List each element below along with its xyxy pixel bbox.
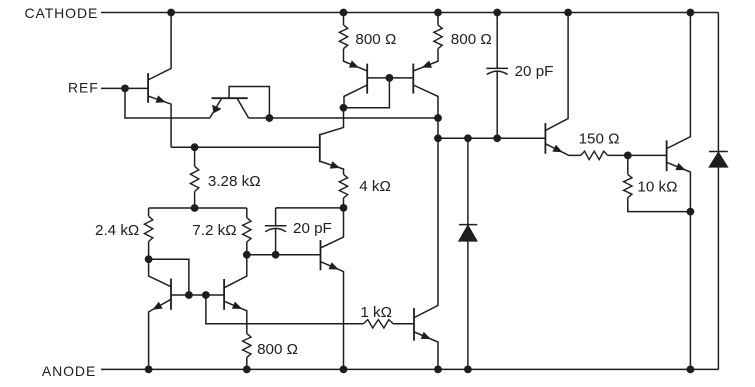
capacitor 20 pF (right): [486, 68, 508, 74]
wire Q4 collector riser to node A: [321, 108, 344, 135]
wire Q9 collector diagonal: [149, 259, 171, 287]
node 20pF left bottom: [272, 251, 280, 259]
node REF junction: [121, 85, 129, 93]
wire Q4 base rail from Q1 emitter: [171, 146, 320, 148]
transistor Q6 base bar: [412, 64, 414, 94]
wire Q9 base-collector tie: [149, 259, 189, 295]
resistor 800 Ω (right): [434, 25, 442, 49]
node Q8 base / 10k junction: [624, 152, 632, 160]
node 800ohm right at cathode rail: [434, 9, 442, 17]
wire cathode rail: [101, 12, 718, 14]
svg-text:10 kΩ: 10 kΩ: [637, 178, 677, 195]
svg-text:2.4 kΩ: 2.4 kΩ: [95, 222, 139, 239]
wire Q12 collector riser: [414, 138, 438, 317]
node 2.4k bottom / Q9 collector: [145, 255, 153, 263]
wire Q7 collector to cathode: [546, 13, 568, 131]
wire Q4 emitter to 4k: [321, 162, 344, 175]
wire Q7 emitter to 150ohm: [546, 144, 581, 156]
wire Q1 emitter drop: [149, 96, 171, 147]
transistor Q4 base bar: [319, 134, 321, 163]
transistor Q10 base bar: [223, 279, 225, 310]
wire 20pF left top rail: [276, 207, 344, 209]
wire Q1 collector to cathode: [149, 13, 171, 80]
node Q8 emitter at anode rail: [687, 366, 695, 374]
node Q9 emitter at anode rail: [145, 366, 153, 374]
arrow Q11 emitter (NPN): [329, 262, 339, 269]
svg-text:800 Ω: 800 Ω: [257, 341, 298, 358]
wire 3.28k top lead: [194, 147, 196, 166]
node base rail left junction: [185, 291, 193, 299]
node Q8 collector at cathode rail: [687, 9, 695, 17]
node B mirror output: [434, 114, 442, 122]
transistor Q7 base bar: [544, 123, 546, 154]
node Q11 emitter at anode rail: [340, 366, 348, 374]
node Q7 collector at cathode rail: [564, 9, 572, 17]
wire Q7 base rail: [438, 137, 545, 139]
arrow Q7 emitter (NPN): [552, 145, 562, 153]
svg-text:4 kΩ: 4 kΩ: [359, 178, 391, 195]
svg-text:20 pF: 20 pF: [515, 63, 554, 80]
resistor 7.2 kΩ: [243, 218, 251, 242]
wire 150ohm to Q8 base: [608, 154, 667, 156]
svg-text:150 Ω: 150 Ω: [579, 131, 620, 148]
transistor Q2 base bar (horizontal): [212, 97, 248, 99]
wire 7.2k top lead: [246, 208, 248, 218]
svg-text:7.2 kΩ: 7.2 kΩ: [192, 222, 236, 239]
node divider junction: [191, 204, 199, 212]
node 10k bottom / Q8 emitter: [687, 208, 695, 216]
node 800ohm left at cathode rail: [340, 9, 348, 17]
node Q4 base / 3.28k junction: [191, 143, 199, 151]
arrow Q4 emitter (NPN): [330, 161, 340, 168]
wire Q11 base rail: [247, 254, 321, 256]
wire Q5-Q6 base rail: [367, 77, 413, 79]
wire 20pF right bottom lead: [496, 71, 498, 138]
svg-text:800 Ω: 800 Ω: [355, 31, 396, 48]
resistor 3.28 kΩ: [190, 166, 198, 191]
node 20pF right at cathode rail: [493, 9, 501, 17]
wire Q11 emitter drop to anode: [321, 262, 344, 370]
wire 800ohm right top lead: [437, 13, 439, 25]
wire Q11 collector riser: [321, 208, 344, 248]
arrow Q5 emitter (PNP): [349, 60, 359, 67]
node 7.2k bottom / Q10 collector: [243, 251, 251, 259]
wire 10k bottom to Q8 emitter: [628, 198, 691, 212]
wire 10k top lead: [627, 155, 629, 174]
wire Q9-Q10 base rail: [171, 294, 224, 296]
wire Q6 collector to node B: [413, 85, 438, 118]
wire REF lead: [101, 87, 148, 89]
wire node B drop: [437, 118, 439, 138]
wire Q6 emitter from 800ohm: [413, 49, 438, 71]
diode D1 (middle): [459, 138, 478, 369]
arrow Q9 emitter (NPN): [152, 302, 162, 310]
arrow Q1 emitter (NPN): [156, 95, 166, 102]
wire 3.28k bottom lead: [194, 192, 196, 209]
wire anode rail: [101, 368, 718, 370]
node base rail right junction: [202, 291, 210, 299]
svg-text:3.28 kΩ: 3.28 kΩ: [208, 173, 261, 190]
resistor 4 kΩ: [339, 174, 347, 198]
arrow Q10 emitter (NPN): [232, 302, 242, 309]
svg-text:ANODE: ANODE: [42, 363, 96, 379]
wire Q10 collector diagonal: [224, 255, 247, 288]
node diode middle at anode rail: [464, 366, 472, 374]
wire 800ohm left top lead: [343, 13, 345, 25]
resistor 800 Ω (left): [339, 25, 347, 49]
transistor Q5 base bar: [366, 64, 368, 94]
wire Q12 emitter to anode: [414, 332, 438, 369]
resistor 150 Ω: [581, 151, 608, 159]
wire 1k to Q12 base: [393, 323, 414, 325]
wire base tie down to node A: [344, 78, 390, 108]
node Q2 collector/base junction: [266, 114, 274, 122]
arrow Q12 emitter (NPN): [421, 332, 431, 339]
node 4k bottom / Q11 collector / 20pF: [340, 204, 348, 212]
transistor Q1 base bar: [147, 73, 149, 103]
wire Q9 emitter drop to anode: [149, 299, 171, 369]
svg-text:REF: REF: [68, 79, 99, 95]
node Q12 collector / node B rail: [434, 134, 442, 142]
arrow Q8 emitter (NPN): [675, 163, 685, 170]
wire 7.2k bottom lead: [246, 242, 248, 255]
wire 20pF left bottom lead: [275, 228, 277, 254]
svg-text:1 kΩ: 1 kΩ: [360, 304, 392, 321]
wire divider node rail: [149, 207, 247, 209]
svg-text:CATHODE: CATHODE: [25, 5, 99, 21]
wire Q2 base tie to collector: [229, 87, 269, 119]
wire 4k bottom lead: [343, 198, 345, 208]
wire Q5 collector to node A: [344, 85, 367, 108]
wire Q8 collector to cathode: [667, 13, 691, 149]
transistor Q8 base bar: [666, 140, 668, 171]
resistor 10 kΩ: [624, 174, 632, 197]
wire 2.4k bottom lead: [148, 242, 150, 260]
transistor Q11 base bar: [320, 240, 322, 270]
wire 2.4k top lead: [148, 208, 150, 216]
arrow Q2 emitter (PNP, points to base): [212, 105, 222, 113]
wire base node to 1k: [206, 295, 364, 324]
wire Q2 collector diagonal: [237, 98, 249, 118]
wire 800ohm bottom lead: [246, 357, 248, 369]
resistor 2.4 kΩ: [144, 216, 152, 241]
node diode branch junction: [464, 134, 472, 142]
transistor Q9 base bar: [170, 279, 172, 310]
svg-text:800 Ω: 800 Ω: [451, 31, 492, 48]
node A mirror input (Q5 collector / Q4 collector / base tie): [340, 104, 348, 112]
wire Q5 emitter from 800ohm: [344, 49, 368, 71]
node Q1 collector at cathode rail: [167, 9, 175, 17]
wire 20pF left top lead: [275, 208, 277, 226]
wire Q8 emitter to anode: [667, 162, 691, 369]
wire Q2 emitter diagonal: [210, 98, 222, 118]
wire mirror output rail: [249, 117, 438, 119]
resistor 1 kΩ: [363, 320, 393, 328]
node 800ohm bottom at anode rail: [243, 366, 251, 374]
node Q12 emitter at anode rail: [434, 366, 442, 374]
node 20pF right bottom junction: [493, 134, 501, 142]
arrow Q6 emitter (PNP): [422, 61, 432, 68]
node base rail junction: [386, 74, 394, 82]
wire 20pF right top lead: [496, 13, 498, 69]
svg-text:20 pF: 20 pF: [293, 220, 332, 237]
wire REF to Q2 emitter: [125, 88, 210, 118]
diode D2 (right edge): [709, 152, 728, 168]
capacitor 20 pF (left): [265, 226, 287, 232]
transistor Q12 base bar: [413, 308, 415, 341]
wire Q10 emitter to 800ohm: [225, 302, 247, 334]
resistor 800 Ω (bottom): [243, 334, 251, 358]
wire right edge (diode branch): [717, 13, 719, 370]
